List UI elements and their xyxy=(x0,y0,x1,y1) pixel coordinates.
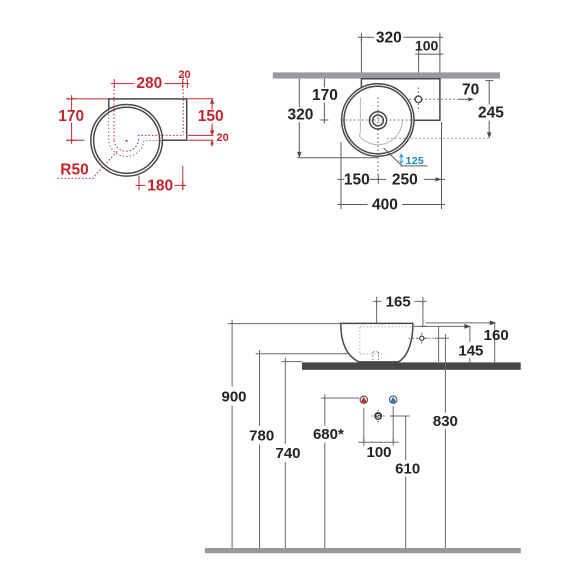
dim 740 vertical xyxy=(284,362,286,548)
inner deck dotted horizontal xyxy=(360,326,411,328)
extension 100 left xyxy=(418,54,420,72)
svg-text:320: 320 xyxy=(287,106,313,123)
dim 150 line xyxy=(211,99,213,136)
dim 610 top tick xyxy=(390,415,410,417)
dim 245 arrow xyxy=(487,132,492,138)
dim 170 line xyxy=(71,95,73,143)
extension lines 150/400 left xyxy=(340,142,342,209)
dim 245 top tick xyxy=(485,80,493,82)
dim 160 arrow xyxy=(490,321,497,326)
dim 100 line xyxy=(415,53,443,55)
label updown arrow glyph xyxy=(399,153,404,165)
BOTTOM ELEVATION VIEW xyxy=(205,293,521,553)
extension 165 right xyxy=(422,301,424,326)
svg-text:100: 100 xyxy=(366,444,391,461)
TOP-RIGHT PLAN VIEW (black dims) xyxy=(273,29,504,213)
dim 170 ticks xyxy=(67,99,76,140)
dim 900 vertical xyxy=(231,324,233,548)
countertop bar xyxy=(302,362,521,369)
bowl rim top line xyxy=(340,322,414,324)
svg-text:145: 145 xyxy=(458,342,483,359)
dim 320 top line xyxy=(358,36,444,38)
dim 165 ticks xyxy=(377,297,423,306)
dim 150 arrows xyxy=(210,99,214,136)
svg-text:100: 100 xyxy=(415,37,439,53)
dim 180 line xyxy=(136,184,187,186)
dim 70 arrow line xyxy=(457,98,470,100)
faucet dotted vertical xyxy=(417,88,419,112)
svg-text:830: 830 xyxy=(433,413,458,430)
dim 20 lower arrows xyxy=(210,131,214,144)
dim 400 ticks xyxy=(341,200,442,209)
dim 145 vertical xyxy=(469,326,471,362)
dim 680 top tick xyxy=(321,394,360,398)
basin inner rim circle right view xyxy=(344,86,412,154)
drain inner circle xyxy=(373,115,384,126)
dim 100 ticks xyxy=(364,439,393,446)
extension lines 150/20 right xyxy=(188,99,214,141)
drain symbol ticks xyxy=(372,410,385,423)
dim 610 vertical xyxy=(405,416,407,548)
dim 150/250 line xyxy=(338,178,445,180)
dim 145 arrow xyxy=(464,324,471,329)
svg-text:780: 780 xyxy=(249,427,274,444)
svg-text:S: S xyxy=(376,413,381,420)
inner bowl light arc xyxy=(359,120,402,145)
R50 leader dotted underline xyxy=(58,177,95,179)
dim 280 ticks xyxy=(114,79,187,88)
dim 100 bracket left xyxy=(363,408,365,442)
supply cold triangle xyxy=(390,397,396,403)
extension 320/100 right xyxy=(439,37,441,72)
shelf rectangle outline xyxy=(109,99,187,140)
inner bowl dotted arc R50 xyxy=(114,137,139,151)
svg-text:170: 170 xyxy=(58,108,84,125)
shelf top edge right of bowl xyxy=(412,325,439,327)
svg-text:150: 150 xyxy=(198,108,224,125)
basin inner rim circle xyxy=(94,107,160,173)
dim 740 top tick xyxy=(281,358,302,362)
svg-text:245: 245 xyxy=(478,104,504,121)
dim 160 vertical xyxy=(494,323,496,363)
basin circle outline xyxy=(91,105,163,177)
dim 100 line xyxy=(358,441,398,443)
dim 320 top ticks xyxy=(361,33,440,42)
svg-text:160: 160 xyxy=(484,327,509,344)
basin circle right view xyxy=(342,84,414,156)
dim 320 left arrow xyxy=(297,152,302,158)
extension lines 170 xyxy=(66,99,109,140)
faucet dotted horizontal elevation xyxy=(409,337,436,339)
dim 100 ticks xyxy=(419,50,440,58)
tick at 165 right bottom xyxy=(419,325,427,327)
leader diagonal for 125 xyxy=(384,148,403,166)
svg-text:180: 180 xyxy=(147,177,173,194)
inner wall dotted left vertical xyxy=(113,86,115,141)
svg-text:170: 170 xyxy=(312,87,338,104)
svg-text:280: 280 xyxy=(136,75,162,92)
inner wall dotted right vertical xyxy=(182,75,184,135)
dim 320 left vertical xyxy=(298,79,300,154)
dim 170 bottom tick xyxy=(320,119,328,121)
extension lines 180 xyxy=(139,166,183,190)
center crosshair dotted vertical xyxy=(377,98,379,180)
svg-text:900: 900 xyxy=(221,388,246,405)
supply cold circle xyxy=(390,396,397,403)
dim 20 lower stubs xyxy=(211,127,213,147)
faucet cross ticks xyxy=(416,333,427,344)
svg-text:250: 250 xyxy=(392,171,418,188)
supply hot triangle xyxy=(361,397,367,403)
dim 70 arrowhead xyxy=(468,97,474,101)
inner shelf wall light vertical xyxy=(359,98,360,137)
svg-text:165: 165 xyxy=(386,293,411,310)
R50 leader dotted diagonal xyxy=(94,152,117,177)
shelf right edge elevation xyxy=(438,326,440,362)
extension 320 left bottom xyxy=(297,157,378,159)
hidden shelf/bowl wall dotted gray xyxy=(109,111,163,157)
svg-text:20: 20 xyxy=(178,69,190,81)
svg-text:70: 70 xyxy=(462,81,479,98)
drain symbol circle xyxy=(374,412,382,420)
center dot xyxy=(126,140,128,142)
dim 900 top tick xyxy=(228,320,341,324)
faucet cross circle xyxy=(420,336,424,340)
svg-text:740: 740 xyxy=(275,445,300,462)
dim 150/250 ticks xyxy=(341,175,442,184)
drain outer circle xyxy=(369,112,386,129)
svg-text:400: 400 xyxy=(372,197,398,214)
inner wall dotted bottom horizontal xyxy=(138,134,183,136)
dim 780 top tick xyxy=(256,350,348,354)
TOP-LEFT PLAN VIEW (red dims) xyxy=(58,69,229,195)
bowl inner bottom dotted xyxy=(360,353,385,355)
dim 245 vertical xyxy=(488,81,490,135)
dim 160 top line xyxy=(426,322,491,324)
overflow dotted light line xyxy=(387,137,489,139)
wall bar xyxy=(273,72,500,78)
extension 165 left xyxy=(376,301,378,323)
svg-text:125: 125 xyxy=(406,155,424,167)
dim 400 line xyxy=(338,204,445,206)
svg-text:610: 610 xyxy=(395,461,420,478)
svg-text:150: 150 xyxy=(344,171,370,188)
extension lines 250/400 right xyxy=(441,122,443,209)
dim 165 line xyxy=(373,300,426,302)
svg-text:680*: 680* xyxy=(313,426,344,443)
waste outlet dotted rect xyxy=(373,352,379,362)
dim 180 ticks xyxy=(139,181,183,190)
floor bar xyxy=(205,548,521,553)
dim 280 line xyxy=(111,83,190,85)
dim 830 vertical xyxy=(444,334,446,548)
bowl outline xyxy=(341,323,413,362)
faucet line to 830 xyxy=(435,337,449,339)
supply hot circle xyxy=(360,396,367,403)
extension 320 top left xyxy=(360,37,362,72)
dim 100 bracket right xyxy=(392,406,394,442)
leader underline for 125 xyxy=(401,165,428,167)
inner deck dotted vertical xyxy=(359,327,361,354)
svg-text:R50: R50 xyxy=(60,161,88,178)
dim 780 vertical xyxy=(259,354,261,548)
shelf outline right view xyxy=(361,79,440,121)
dim 680 vertical xyxy=(324,398,326,548)
dim 250 right arrowhead xyxy=(436,177,442,181)
svg-text:320: 320 xyxy=(376,29,402,46)
dim 170 right view xyxy=(323,79,325,124)
center crosshair dotted horizontal xyxy=(342,119,440,121)
dim 145 top line xyxy=(439,325,466,327)
faucet dotted horizontal xyxy=(410,98,456,100)
faucet hole circle xyxy=(415,96,422,103)
svg-text:20: 20 xyxy=(216,132,228,144)
